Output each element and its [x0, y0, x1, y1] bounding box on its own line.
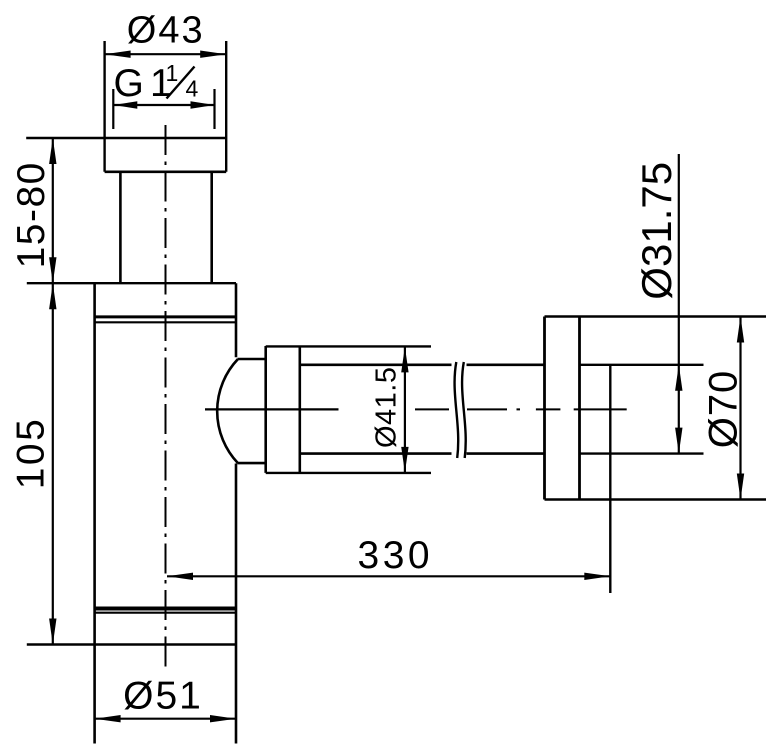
- inlet flange top line with left extension for 15-80: [26, 137, 226, 139]
- body right wall lower: [235, 464, 238, 744]
- arrowhead Ø70 top: [737, 317, 744, 343]
- body left wall: [93, 283, 96, 743]
- arrowhead 330 right: [584, 573, 610, 580]
- arrowhead 105 bottom: [49, 619, 56, 645]
- svg-text:Ø70: Ø70: [702, 370, 746, 449]
- dimension ticks G 1 1/4: [113, 89, 214, 129]
- tailpipe left wall: [119, 172, 122, 283]
- centerline horizontal solid through dome and nut: [205, 408, 339, 410]
- arrowhead Ø70 bottom: [737, 474, 744, 500]
- outlet pipe bottom wall (nut to break): [300, 452, 452, 455]
- outlet pipe bottom wall (break to wall flange): [467, 452, 545, 455]
- outlet nut left edge: [264, 346, 267, 473]
- wall flange left edge: [543, 317, 546, 500]
- body lid joint thick line: [95, 315, 236, 318]
- arrowhead 15-80 top: [49, 138, 56, 164]
- arrowhead Ø43 right: [200, 51, 226, 58]
- svg-text:Ø41.5: Ø41.5: [371, 367, 403, 449]
- centerline horizontal dash-dot segments (outlet axis): [415, 408, 627, 410]
- outlet pipe top wall (break to wall flange): [467, 363, 545, 366]
- arrowhead G1-1/4 left: [113, 101, 137, 108]
- arrowhead G1-1/4 right: [191, 101, 215, 108]
- arrowhead Ø41.5 bottom: [401, 447, 408, 473]
- dimension line Ø70: [739, 317, 741, 500]
- inlet flange bottom line: [105, 171, 227, 174]
- dimension line 105: [52, 283, 54, 644]
- tailpipe right wall: [210, 172, 213, 283]
- arrowhead Ø31.75 bottom: [675, 428, 682, 454]
- arrowhead Ø51 left: [95, 715, 121, 722]
- svg-text:Ø31.75: Ø31.75: [633, 162, 680, 300]
- pipe stub top right of flange / Ø31.75 extension: [580, 364, 704, 366]
- dimension line Ø43: [105, 53, 227, 55]
- pipe break squiggle right: [462, 362, 466, 458]
- arrowhead Ø41.5 top: [401, 347, 408, 373]
- pipe end edge + 330 right extension line: [609, 365, 611, 593]
- arrowhead Ø43 left: [105, 51, 131, 58]
- svg-text:G: G: [114, 62, 144, 105]
- outlet nut right edge: [298, 346, 301, 473]
- arrowhead Ø31.75 top: [675, 365, 682, 391]
- dimension line Ø31.75 with leader to text: [678, 154, 680, 454]
- body top line with left extension for 105: [27, 282, 236, 284]
- arrowhead 15-80 bottom: [49, 257, 56, 283]
- arrowhead 330 left: [167, 573, 193, 580]
- wall flange bottom edge + Ø70 extension: [545, 498, 767, 501]
- body cup joint thin line: [95, 612, 236, 614]
- svg-text:Ø43: Ø43: [127, 10, 205, 52]
- svg-text:330: 330: [358, 534, 434, 577]
- svg-text:1: 1: [166, 60, 179, 86]
- outlet nut bottom edge + Ø41.5 extension: [266, 472, 431, 474]
- dimension line 330: [167, 575, 610, 577]
- outlet nut top edge + Ø41.5 extension: [266, 345, 431, 347]
- svg-text:4: 4: [186, 76, 199, 102]
- outlet neck bottom line: [238, 462, 266, 465]
- svg-text:15-80: 15-80: [10, 161, 53, 268]
- inlet dome arc: [217, 359, 238, 463]
- fraction slash of G 1 1/4: [167, 67, 195, 99]
- inlet flange left edge + Ø43 extension line: [103, 41, 105, 172]
- dimension line 15-80: [52, 138, 54, 283]
- dimension line Ø41.5: [404, 346, 406, 473]
- body cup bottom line with left extension for 105: [27, 643, 236, 645]
- outlet pipe top wall (nut to break): [300, 363, 452, 366]
- body lid joint thin line: [95, 321, 236, 323]
- arrowhead 105 top: [49, 283, 56, 309]
- pipe stub bottom right of flange / Ø31.75 extension: [580, 452, 704, 454]
- dimension line G 1 1/4: [113, 104, 214, 106]
- outlet neck top line: [238, 358, 266, 361]
- inlet flange right edge + Ø43 extension line: [225, 41, 227, 172]
- wall flange right edge: [578, 317, 581, 500]
- body cup joint thick line: [95, 607, 236, 611]
- wall flange top edge + Ø70 extension: [545, 315, 767, 318]
- svg-text:Ø51: Ø51: [123, 674, 203, 717]
- pipe break squiggle left: [455, 362, 459, 458]
- svg-text:105: 105: [10, 417, 53, 490]
- centerline vertical (trap axis): [165, 125, 167, 667]
- arrowhead Ø51 right: [210, 715, 236, 722]
- body right wall upper: [235, 283, 238, 357]
- dimension line Ø51: [95, 718, 236, 720]
